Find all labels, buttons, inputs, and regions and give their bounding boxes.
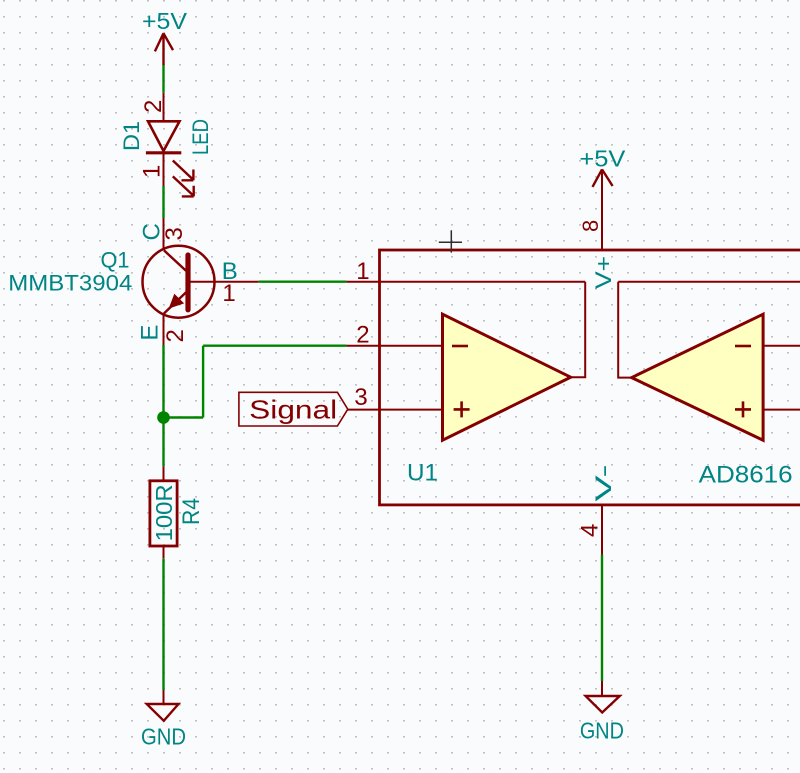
wire LED cathode to Q1 collector xyxy=(162,186,164,218)
ground symbol (right) xyxy=(586,681,620,713)
U1 pin 4 (V-) xyxy=(601,505,603,555)
svg-text:Q1: Q1 xyxy=(101,248,130,273)
op-amp B plus input graphic xyxy=(763,409,800,411)
wire Q1 emitter to junction xyxy=(162,345,164,418)
svg-text:LED: LED xyxy=(188,119,213,155)
plus sign B xyxy=(735,401,751,417)
transistor Q1 xyxy=(143,218,259,345)
minus sign A xyxy=(452,345,468,348)
svg-text:MMBT3904: MMBT3904 xyxy=(8,271,132,296)
svg-text:2: 2 xyxy=(356,322,369,349)
wire corner up xyxy=(202,346,204,418)
svg-text:4: 4 xyxy=(577,524,604,537)
wire +5V to LED anode xyxy=(162,65,164,93)
power symbol +5V (left) xyxy=(155,33,173,65)
svg-text:U1: U1 xyxy=(407,460,438,487)
svg-text:E: E xyxy=(137,325,164,341)
resistor R4 xyxy=(150,466,177,558)
svg-text:GND: GND xyxy=(141,724,186,750)
svg-text:V+: V+ xyxy=(591,256,616,289)
U1 pin 3 xyxy=(348,409,380,411)
op-amp A triangle xyxy=(443,314,571,440)
wire R4 to GND xyxy=(162,559,164,690)
U1 pin 1 xyxy=(346,281,379,283)
plus sign A xyxy=(454,401,470,417)
power symbol +5V (right) xyxy=(593,169,613,187)
svg-text:2: 2 xyxy=(162,329,189,342)
op-amp A plus input graphic xyxy=(380,409,443,411)
svg-text:+5V: +5V xyxy=(579,146,626,172)
svg-text:2: 2 xyxy=(140,100,167,113)
wire junction to corner xyxy=(164,416,204,418)
wire U1 pin 4 to GND xyxy=(601,555,603,682)
wire to U1 pin 2 xyxy=(203,345,346,347)
op-amp A minus input graphic xyxy=(380,345,443,347)
svg-text:3: 3 xyxy=(161,227,188,240)
op-amp U1 body rectangle xyxy=(380,250,800,505)
U1 pin 8 (V+) xyxy=(601,169,603,250)
junction xyxy=(157,411,170,424)
svg-text:AD8616: AD8616 xyxy=(699,462,793,489)
svg-text:GND: GND xyxy=(580,718,624,744)
svg-text:8: 8 xyxy=(578,220,603,232)
op-amp B minus input graphic xyxy=(763,345,800,347)
svg-text:R4: R4 xyxy=(178,498,205,525)
global label Signal xyxy=(239,392,348,426)
cursor crosshair xyxy=(439,230,462,252)
op-amp A output to pin 1 routing xyxy=(380,282,586,378)
wire junction to R4 xyxy=(162,418,164,467)
svg-text:Signal: Signal xyxy=(249,394,337,424)
svg-text:+5V: +5V xyxy=(142,8,188,34)
svg-text:V-: V- xyxy=(591,465,616,502)
svg-text:1: 1 xyxy=(139,165,166,178)
svg-text:3: 3 xyxy=(354,384,367,411)
ground symbol (left) xyxy=(147,690,179,721)
U1 pin 2 xyxy=(346,345,379,347)
wire Q1 base to U1 pin 1 xyxy=(259,281,347,283)
op-amp B triangle xyxy=(632,314,764,440)
LED D1 xyxy=(146,93,194,197)
svg-text:1: 1 xyxy=(356,258,369,285)
svg-text:1: 1 xyxy=(222,280,235,307)
minus sign B xyxy=(735,345,751,348)
svg-text:100R: 100R xyxy=(151,484,177,541)
svg-text:D1: D1 xyxy=(119,121,144,151)
op-amp B output to pin 7 routing xyxy=(618,282,800,378)
